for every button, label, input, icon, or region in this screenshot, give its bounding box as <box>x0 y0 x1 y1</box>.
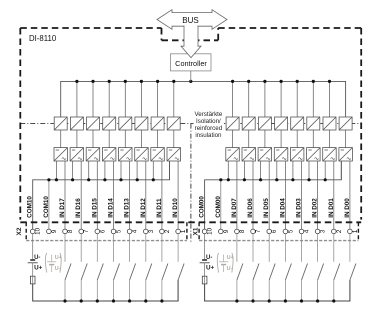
svg-text:2: 2 <box>164 229 171 233</box>
input conditioner (DC/~ converter), channel D05 (bottom row) <box>258 148 272 161</box>
field switch contact on input X2 <box>161 234 163 262</box>
input conditioner (DC/~ converter), channel D01 (bottom row) <box>323 148 337 161</box>
field switch contact on input X1 <box>252 234 254 262</box>
module dashed border: top edge right segment <box>218 27 361 29</box>
plug connector X2 (grey dashed) <box>26 240 187 242</box>
input conditioner (DC/~ converter), channel D10 (bottom row) <box>167 148 181 161</box>
svg-text:COM00: COM00 <box>199 196 206 218</box>
field switch contact on input X1 <box>284 234 286 262</box>
wires channel 12 (bus drop, inter-stage, COM pin, input pin) <box>296 81 298 117</box>
svg-text:IN D02: IN D02 <box>312 198 319 218</box>
svg-text:COM10: COM10 <box>43 196 50 218</box>
input conditioner (DC/~ converter), channel D02 (bottom row) <box>307 148 321 161</box>
field switch contact on input X1 <box>236 234 238 262</box>
field switch contact on input X2 <box>80 234 82 262</box>
svg-text:10: 10 <box>207 227 214 234</box>
terminal X1.7 (IN D06) screw point <box>251 229 262 234</box>
input conditioner (DC/~ converter), channel D12 (bottom row) <box>135 148 149 161</box>
terminal X1.2 (IN D01) screw point <box>332 229 343 234</box>
svg-text:IN D16: IN D16 <box>75 198 82 218</box>
svg-text:1: 1 <box>352 229 359 233</box>
svg-text:IN D05: IN D05 <box>263 198 270 218</box>
optocoupler / galvanic isolator, channel D10 (top row) <box>167 117 180 130</box>
svg-text:U-: U- <box>55 266 61 272</box>
module dashed border: left edge <box>19 28 21 220</box>
wires channel 1 (bus drop, inter-stage, COM pin, input pin) <box>76 81 78 117</box>
terminal X2.5 (IN D14) screw point <box>111 229 122 234</box>
optocoupler / galvanic isolator, channel D06 (top row) <box>242 117 255 130</box>
terminal X1.9 (COM00) screw point <box>219 229 230 234</box>
input conditioner (DC/~ converter), channel D11 (bottom row) <box>151 148 165 161</box>
svg-text:5: 5 <box>287 229 294 233</box>
wires channel 4 (bus drop, inter-stage, COM pin, input pin) <box>124 81 126 117</box>
svg-text:Controller: Controller <box>175 59 207 68</box>
svg-text:insulation: insulation <box>195 132 222 139</box>
svg-text:X2: X2 <box>16 227 23 235</box>
terminal X1.3 (IN D02) screw point <box>315 229 326 234</box>
wires channel 0 (bus drop, inter-stage, COM pin, input pin) <box>60 130 62 148</box>
terminal X2.1 (IN D10) screw point <box>176 229 187 234</box>
wires channel 14 (bus drop, inter-stage, COM pin, input pin) <box>329 81 331 117</box>
input conditioner (DC/~ converter), channel D13 (bottom row) <box>119 148 133 161</box>
COM00 common bus (right half) <box>205 161 342 229</box>
terminal X2.3 (IN D12) screw point <box>144 229 155 234</box>
terminal X1.5 (IN D04) screw point <box>283 229 294 234</box>
field common return line (right half) <box>205 280 350 301</box>
terminal X2.6 (IN D15) screw point <box>95 229 106 234</box>
svg-text:U-: U- <box>34 255 40 261</box>
svg-text:COM00: COM00 <box>215 196 222 218</box>
optocoupler / galvanic isolator, channel D13 (top row) <box>119 117 132 130</box>
optocoupler / galvanic isolator, channel D02 (top row) <box>307 117 320 130</box>
module dashed border: notch bottom under BUS arrow <box>162 39 219 41</box>
COM10 common bus (left half) <box>33 161 170 229</box>
terminal X2.9 (COM10) screw point <box>47 229 58 234</box>
connector bay X1 right wall <box>357 222 359 240</box>
terminal X2.4 (IN D13) screw point <box>127 229 138 234</box>
input conditioner (DC/~ converter), channel D16 (bottom row) <box>70 148 84 161</box>
terminal X1.4 (IN D03) screw point <box>299 229 310 234</box>
optocoupler / galvanic isolator, channel D05 (top row) <box>258 117 271 130</box>
field switch contact on input X2 <box>145 234 147 262</box>
svg-text:10: 10 <box>35 227 42 234</box>
alternative supply polarity (U+/U-), left half <box>45 253 61 273</box>
svg-text:U+: U+ <box>55 255 62 261</box>
optocoupler / galvanic isolator, channel D15 (top row) <box>87 117 100 130</box>
internal bus line from controller to channel isolators <box>61 81 346 117</box>
svg-text:IN D13: IN D13 <box>124 198 131 218</box>
field switch contact on input X2 <box>64 234 66 262</box>
svg-text:Isolation/: Isolation/ <box>196 118 221 125</box>
svg-text:IN D17: IN D17 <box>59 198 66 218</box>
wires channel 11 (bus drop, inter-stage, COM pin, input pin) <box>280 81 282 117</box>
svg-text:IN D15: IN D15 <box>91 198 98 218</box>
svg-text:8: 8 <box>67 229 74 233</box>
input conditioner (DC/~ converter), channel D17 (bottom row) <box>54 148 68 161</box>
svg-text:IN D01: IN D01 <box>328 198 335 218</box>
svg-text:IN D12: IN D12 <box>140 198 147 218</box>
optocoupler / galvanic isolator, channel D04 (top row) <box>275 117 288 130</box>
svg-text:IN D07: IN D07 <box>231 198 238 218</box>
field switch contact on input X2 <box>113 234 115 262</box>
svg-text:IN D06: IN D06 <box>247 198 254 218</box>
module dashed border: top edge left segment <box>20 27 161 29</box>
module dashed border: notch left wall <box>161 28 163 40</box>
svg-text:IN D10: IN D10 <box>172 198 179 218</box>
wire controller to internal bus <box>190 71 192 82</box>
svg-text:IN D00: IN D00 <box>344 198 351 218</box>
fuse F, left half <box>30 276 35 284</box>
svg-text:IN D14: IN D14 <box>108 198 115 218</box>
terminal X2.10 (COM10) screw point <box>30 227 41 234</box>
reinforced insulation note (white backing) <box>194 108 225 140</box>
svg-text:COM10: COM10 <box>27 196 34 218</box>
terminal X2.8 (IN D17) screw point <box>63 229 74 234</box>
input conditioner (DC/~ converter), channel D07 (bottom row) <box>226 148 240 161</box>
svg-text:9: 9 <box>51 229 58 233</box>
svg-text:1: 1 <box>180 229 187 233</box>
module dashed border: notch right wall <box>217 28 219 40</box>
input conditioner (DC/~ converter), channel D15 (bottom row) <box>86 148 100 161</box>
svg-text:6: 6 <box>271 229 278 233</box>
field switch contact on input X1 <box>317 234 319 262</box>
terminal X1.6 (IN D05) screw point <box>267 229 278 234</box>
svg-text:DI-8110: DI-8110 <box>29 34 57 43</box>
reinforced insulation note text <box>194 111 222 139</box>
optocoupler / galvanic isolator, channel D00 (top row) <box>339 117 352 130</box>
svg-text:2: 2 <box>336 229 343 233</box>
svg-text:IN D03: IN D03 <box>296 198 303 218</box>
BUS double-headed arrow <box>157 10 227 30</box>
wires channel 10 (bus drop, inter-stage, COM pin, input pin) <box>264 81 266 117</box>
svg-text:IN D04: IN D04 <box>279 198 286 218</box>
arrow from BUS to controller <box>181 25 201 57</box>
wires channel 6 (bus drop, inter-stage, COM pin, input pin) <box>157 81 159 117</box>
isolation barrier dash-dot line (horizontal) <box>20 123 361 125</box>
module dashed border: right edge <box>360 28 362 220</box>
svg-text:7: 7 <box>83 229 90 233</box>
svg-text:3: 3 <box>148 229 155 233</box>
field switch contact on input X2 <box>129 234 131 262</box>
input conditioner (DC/~ converter), channel D04 (bottom row) <box>274 148 288 161</box>
svg-text:U-: U- <box>206 255 212 261</box>
field switch contact on input X1 <box>301 234 303 262</box>
wires channel 15 (bus drop, inter-stage, COM pin, input pin) <box>345 130 347 148</box>
svg-text:U-: U- <box>227 266 233 272</box>
field switch contact on input X1 <box>333 234 335 262</box>
svg-text:3: 3 <box>320 229 327 233</box>
optocoupler / galvanic isolator, channel D11 (top row) <box>151 117 164 130</box>
svg-text:X1: X1 <box>192 227 199 235</box>
wires channel 3 (bus drop, inter-stage, COM pin, input pin) <box>108 81 110 117</box>
terminal X2.2 (IN D11) screw point <box>160 229 171 234</box>
terminal X1.10 (COM00) screw point <box>202 227 213 234</box>
svg-text:IN D11: IN D11 <box>156 198 163 218</box>
svg-text:Verstärkte: Verstärkte <box>194 111 222 118</box>
wires channel 7 (bus drop, inter-stage, COM pin, input pin) <box>173 81 175 117</box>
connector bay X2 left wall <box>25 222 27 240</box>
wires channel 8 (bus drop, inter-stage, COM pin, input pin) <box>232 81 234 117</box>
svg-text:U+: U+ <box>34 265 43 272</box>
svg-text:6: 6 <box>99 229 106 233</box>
optocoupler / galvanic isolator, channel D03 (top row) <box>291 117 304 130</box>
alternative supply polarity (U+/U-), right half <box>217 253 233 273</box>
optocoupler / galvanic isolator, channel D16 (top row) <box>70 117 83 130</box>
field switch contact on input X2 <box>96 234 98 262</box>
svg-text:7: 7 <box>255 229 262 233</box>
terminal X1.1 (IN D00) screw point <box>348 229 359 234</box>
svg-text:BUS: BUS <box>182 16 198 25</box>
controller box U1 <box>171 54 212 71</box>
svg-text:reinforced: reinforced <box>195 125 223 132</box>
node: controller-to-bus junction <box>189 80 192 83</box>
input conditioner (DC/~ converter), channel D14 (bottom row) <box>102 148 116 161</box>
input conditioner (DC/~ converter), channel D03 (bottom row) <box>290 148 304 161</box>
field switch contact on input X2 <box>177 234 179 262</box>
wires channel 5 (bus drop, inter-stage, COM pin, input pin) <box>140 81 142 117</box>
supply battery U (right half), U- top / U+ bottom <box>204 234 206 260</box>
optocoupler / galvanic isolator, channel D12 (top row) <box>135 117 148 130</box>
field switch contact on input X1 <box>268 234 270 262</box>
svg-text:8: 8 <box>239 229 246 233</box>
connector bay X2 right wall <box>186 222 188 240</box>
svg-text:9: 9 <box>223 229 230 233</box>
fuse F, right half <box>202 276 207 284</box>
optocoupler / galvanic isolator, channel D07 (top row) <box>226 117 239 130</box>
wires channel 2 (bus drop, inter-stage, COM pin, input pin) <box>92 81 94 117</box>
supply battery U (left half), U- top / U+ bottom <box>32 234 34 260</box>
svg-text:4: 4 <box>304 229 311 233</box>
field switch contact on input X1 <box>349 234 351 262</box>
svg-text:U+: U+ <box>227 255 234 261</box>
input conditioner (DC/~ converter), channel D06 (bottom row) <box>242 148 256 161</box>
connector bay X1 left wall <box>198 222 200 240</box>
svg-text:5: 5 <box>116 229 123 233</box>
isolation barrier dash-dot line (vertical, centre) <box>190 124 192 244</box>
svg-text:U+: U+ <box>206 265 215 272</box>
optocoupler / galvanic isolator, channel D14 (top row) <box>103 117 116 130</box>
field common return line (left half) <box>33 280 178 301</box>
input conditioner (DC/~ converter), channel D00 (bottom row) <box>339 148 353 161</box>
optocoupler / galvanic isolator, channel D01 (top row) <box>323 117 336 130</box>
svg-text:4: 4 <box>132 229 139 233</box>
plug connector X1 (grey dashed) <box>199 240 358 242</box>
optocoupler / galvanic isolator, channel D17 (top row) <box>54 117 67 130</box>
terminal X1.8 (IN D07) screw point <box>235 229 246 234</box>
wires channel 9 (bus drop, inter-stage, COM pin, input pin) <box>248 81 250 117</box>
terminal X2.7 (IN D16) screw point <box>79 229 90 234</box>
module dashed border: bottom edge <box>20 221 361 223</box>
wires channel 13 (bus drop, inter-stage, COM pin, input pin) <box>312 81 314 117</box>
